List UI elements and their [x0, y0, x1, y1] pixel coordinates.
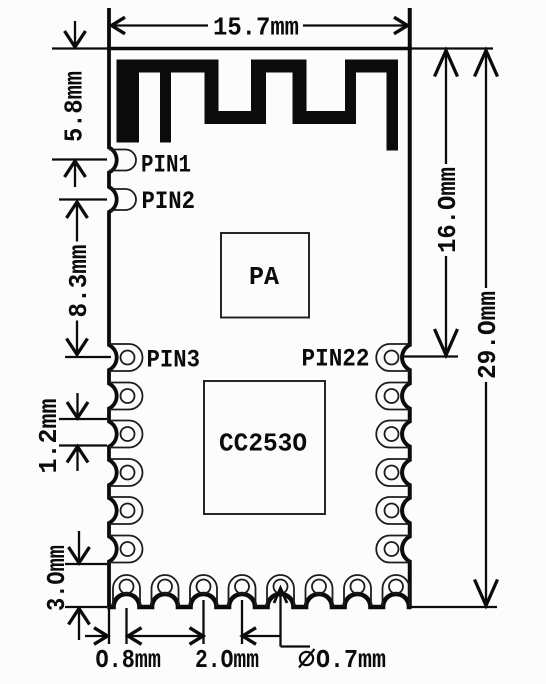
svg-text:CC253O: CC253O: [219, 429, 307, 459]
right pad PIN20 with hole: [376, 421, 410, 448]
svg-text:16.Omm: 16.Omm: [433, 167, 463, 253]
PCB meander antenna: [117, 60, 140, 143]
module bottom edge with castellation notches: [107, 594, 411, 607]
bottom pad 14 with hole: [306, 575, 333, 606]
dim 15.7mm line: [111, 24, 208, 26]
svg-text:15.7mm: 15.7mm: [213, 13, 299, 43]
left pad PIN5 with hole: [109, 421, 143, 448]
CC2530 chip box: [204, 381, 325, 514]
svg-text:PIN1: PIN1: [141, 151, 191, 180]
svg-text:PIN2: PIN2: [142, 187, 196, 216]
svg-text:PIN22: PIN22: [302, 345, 370, 374]
dim 29.0mm line and arrows: [410, 606, 497, 608]
dim 0.8mm ext lines and arrows: [108, 609, 110, 644]
left pad PIN7 with hole: [109, 497, 143, 524]
module left edge with castellation notches: [109, 8, 117, 607]
bottom pad 9 with hole: [113, 575, 140, 606]
module right edge with castellation notches: [402, 8, 410, 607]
dim 8.3mm ticks, line, arrows: [59, 198, 107, 200]
left pad PIN3 with hole: [109, 344, 143, 371]
dim 2.0mm ext lines and arrows: [202, 600, 204, 644]
right pad PIN17 with hole: [376, 536, 410, 563]
svg-text:O.7mm: O.7mm: [316, 645, 386, 675]
svg-text:PIN3: PIN3: [147, 346, 201, 375]
svg-text:3.Omm: 3.Omm: [42, 545, 72, 611]
bottom pad 15 with hole: [344, 575, 371, 606]
dim 1.2mm ticks and arrows: [59, 418, 107, 420]
module top edge: [107, 47, 412, 51]
pad PIN2: [109, 189, 136, 210]
bottom pad 13 with hole: [267, 575, 294, 606]
bottom pad 10 with hole: [152, 575, 179, 606]
dim 3.0mm ticks and arrows: [65, 563, 107, 565]
svg-text:5.8mm: 5.8mm: [60, 71, 90, 142]
bottom pad 16 with hole: [383, 575, 410, 606]
right pad PIN22 with hole: [376, 344, 410, 371]
svg-text:O.8mm: O.8mm: [96, 645, 162, 675]
dim 16.0mm text: [435, 164, 457, 256]
svg-text:8.3mm: 8.3mm: [64, 245, 94, 318]
right pad PIN19 with hole: [376, 459, 410, 486]
svg-text:29.Omm: 29.Omm: [473, 291, 503, 379]
dim 8.3mm text: [66, 242, 88, 321]
svg-text:2.Omm: 2.Omm: [195, 645, 259, 675]
dim 5.8mm ticks and arrows: [52, 47, 107, 49]
dim 16.0mm line and arrows: [410, 47, 493, 49]
svg-text:PA: PA: [249, 262, 279, 292]
dim hole dia 0.7mm leader: [279, 592, 281, 647]
bottom pad 11 with hole: [190, 575, 217, 606]
left pad PIN4 with hole: [109, 383, 143, 410]
bottom pad 12 with hole: [229, 575, 256, 606]
dim 29.0mm text: [475, 288, 497, 382]
pad PIN1: [109, 150, 136, 171]
right pad PIN21 with hole: [376, 383, 410, 410]
svg-text:1.2mm: 1.2mm: [34, 399, 64, 474]
PA chip box: [221, 233, 309, 318]
dia symbol: [300, 652, 313, 665]
left pad PIN6 with hole: [109, 459, 143, 486]
left pad PIN8 with hole: [109, 536, 143, 563]
right pad PIN18 with hole: [376, 497, 410, 524]
